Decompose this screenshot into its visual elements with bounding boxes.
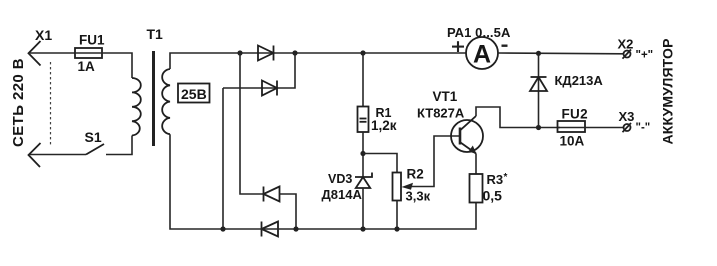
svg-text:25В: 25В (181, 86, 207, 102)
wire VD3 to bus (362, 188, 364, 229)
node junction bus / VD3 (360, 226, 365, 231)
svg-text:3,3к: 3,3к (406, 189, 431, 204)
bridge diode row4 (262, 222, 279, 237)
svg-text:1А: 1А (78, 59, 96, 74)
wire R1 node to R2 (363, 154, 397, 173)
bridge diode row3 (264, 187, 280, 202)
wire S1 to T1 primary (106, 136, 132, 155)
svg-text:S1: S1 (85, 129, 102, 145)
bridge diode top-left (row1) (258, 46, 274, 61)
node junction R1 / R2 branch (360, 151, 365, 156)
terminal X3 (623, 123, 632, 132)
wire bridge left column (row2 to bus) (222, 88, 224, 229)
svg-text:10А: 10А (560, 134, 585, 149)
R2 wiper arrow to VT1 base (402, 136, 461, 190)
mains dashed line (50, 62, 52, 145)
node junction plus rail / protection diode (536, 51, 541, 56)
svg-text:А: А (473, 40, 491, 68)
connector X1 lower arrow (29, 143, 41, 167)
node junction top rail / R1 branch (360, 50, 365, 55)
diode КД213А leads (538, 53, 540, 127)
wire R1 top lead (362, 53, 364, 107)
terminal X2 (623, 50, 632, 59)
svg-text:X3: X3 (619, 109, 635, 124)
resistor R3 (470, 174, 483, 203)
fuse FU1 (75, 48, 102, 58)
fuse FU2 (558, 121, 587, 132)
resistor R1 (358, 107, 369, 133)
svg-text:X2: X2 (618, 37, 634, 52)
label minus at ammeter (502, 45, 508, 47)
svg-text:СЕТЬ 220 В: СЕТЬ 220 В (10, 58, 27, 147)
node junction minus rail / protection diode (536, 125, 541, 130)
svg-text:Д814А: Д814А (322, 187, 363, 202)
svg-text:КТ827А: КТ827А (417, 106, 465, 121)
wire bridge row3 to bus (280, 194, 297, 229)
svg-text:R3: R3 (487, 172, 504, 187)
wire FU2 to X3 (586, 127, 624, 129)
svg-text:R2: R2 (407, 167, 424, 182)
transformer T1 primary winding (132, 78, 141, 136)
wire bottom bus (223, 203, 476, 230)
wire VT1 emitter to R3 (475, 154, 477, 175)
wire VT1 collector to minus rail (476, 107, 560, 128)
svg-text:РА1 0...5А: РА1 0...5А (447, 25, 511, 40)
node junction bus / bridge left (220, 226, 225, 231)
diode КД213А (530, 77, 547, 91)
svg-text:Т1: Т1 (147, 26, 164, 42)
svg-text:"-": "-" (636, 122, 651, 134)
wire secondary bottom lead (170, 134, 223, 229)
svg-text:0,5: 0,5 (483, 188, 503, 204)
svg-text:АККУМУЛЯТОР: АККУМУЛЯТОР (660, 38, 676, 144)
svg-text:VD3: VD3 (328, 172, 352, 186)
node junction top rail / right column (292, 50, 297, 55)
zener diode VD3 (355, 173, 372, 189)
svg-text:1,2к: 1,2к (371, 118, 397, 133)
svg-text:КД213А: КД213А (555, 73, 604, 88)
svg-text:X1: X1 (35, 27, 52, 43)
wire FU1 to T1 primary (102, 53, 132, 78)
node junction bus / bridge right (293, 226, 298, 231)
wire ammeter to X2 (498, 52, 623, 55)
connector X1 upper arrow (29, 41, 41, 66)
ammeter PA1 (466, 37, 498, 69)
wire secondary top (plus rail to ammeter) (170, 53, 466, 69)
wire bridge column row1 to row3 (240, 53, 264, 194)
bridge diode row2 (262, 81, 277, 96)
svg-text:VT1: VT1 (433, 89, 458, 104)
wire R2 bottom lead (396, 201, 398, 230)
resistor R2 (variable) (393, 173, 402, 201)
wire X1 to FU1 (30, 52, 75, 54)
label plus at ammeter (452, 41, 464, 52)
transformer T1 secondary winding (162, 69, 170, 134)
transistor VT1 (451, 116, 483, 154)
transformer T1 core (152, 51, 155, 146)
svg-text:FU1: FU1 (79, 33, 105, 48)
node junction top rail / left column (237, 50, 242, 55)
node junction bus / R2 (394, 226, 399, 231)
wire bridge row2 (223, 53, 295, 88)
label 25В (178, 84, 210, 103)
svg-text:*: * (504, 172, 508, 183)
wire R1 bottom lead (362, 132, 364, 177)
wire X1 to S1 (30, 154, 86, 156)
svg-text:"+": "+" (636, 49, 654, 61)
switch S1 (86, 144, 104, 155)
svg-text:FU2: FU2 (562, 107, 588, 122)
